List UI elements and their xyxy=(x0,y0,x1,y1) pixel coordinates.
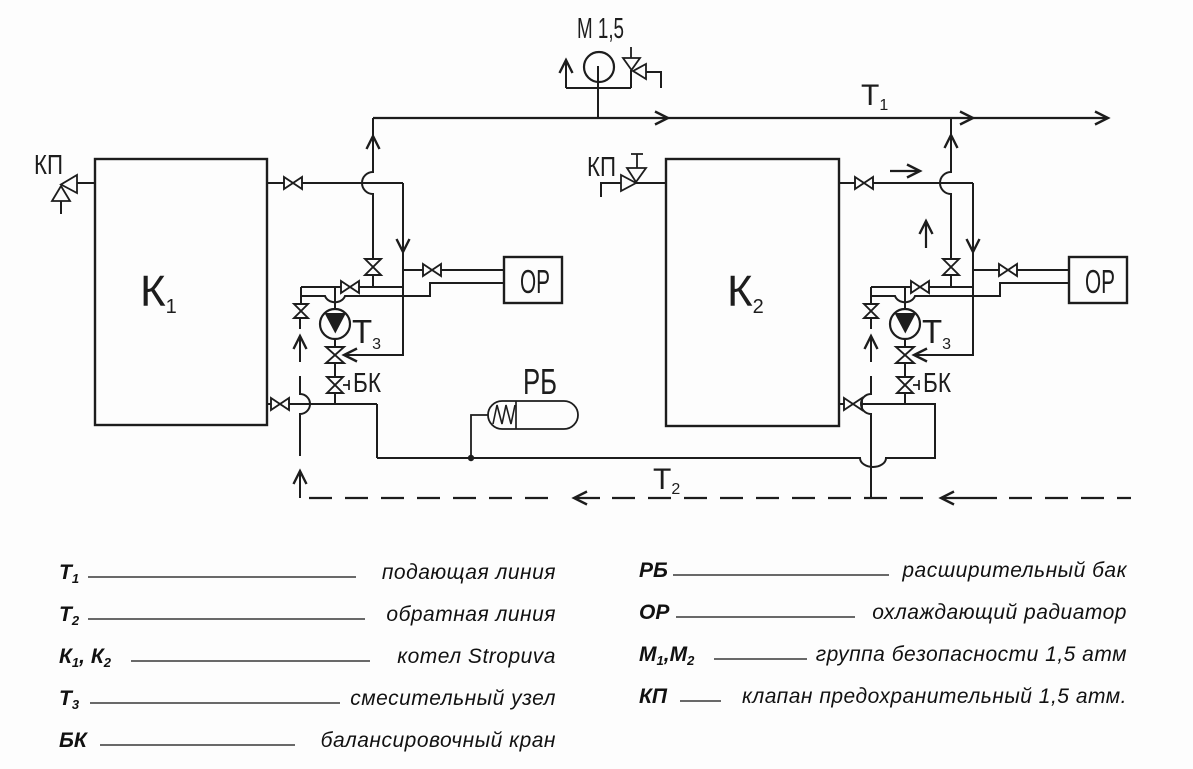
radiator OR right xyxy=(1069,257,1127,303)
safety valve KP right: pipe from K2 xyxy=(636,182,666,184)
svg-text:КП: КП xyxy=(34,149,63,180)
arrow at T1 end xyxy=(1095,112,1108,125)
riser pipe below valve xyxy=(372,275,374,287)
three-way mixing valve right xyxy=(896,347,914,363)
expansion tank RB body xyxy=(488,401,578,429)
down arrow on drop pipe xyxy=(397,239,410,252)
safety valve KP left drain stub xyxy=(60,201,62,214)
valve on K1 top output xyxy=(284,177,302,189)
svg-text:охлаждающий радиатор: охлаждающий радиатор xyxy=(872,601,1127,624)
valve on K1 riser xyxy=(365,259,381,275)
flow arrow right above K2 output xyxy=(890,170,919,172)
safety group manifold pipe xyxy=(566,87,631,89)
pipe to radiator OR right xyxy=(973,269,1069,271)
return line T2 dashes xyxy=(309,497,1131,499)
dashed return riser right: stub below drain valve xyxy=(870,318,872,329)
safety valve KP right triangles xyxy=(621,168,646,191)
riser pipe K2 to T1 with crossing hop xyxy=(940,118,951,260)
three-way mixing valve left xyxy=(326,347,344,363)
dashed return riser right: arrow dash xyxy=(870,337,872,362)
mixing valve inlet pipe with left arrow xyxy=(345,287,403,355)
supply line T1 xyxy=(373,117,1108,119)
drain valve on left leg xyxy=(294,304,308,318)
riser pipe below valve right xyxy=(950,275,952,287)
safety valve KP right outlet pipe xyxy=(601,183,621,197)
junction node at collector xyxy=(468,455,474,461)
dashed return riser left: dash with hop over return pipe xyxy=(300,376,310,456)
arrow on T1 after safety group xyxy=(655,112,668,125)
manometer M circle xyxy=(584,52,614,82)
pipe to radiator OR left xyxy=(403,269,504,271)
svg-text:ОР: ОР xyxy=(520,263,550,300)
valve on OR branch right xyxy=(999,264,1017,276)
dashed return riser left: stub below drain valve xyxy=(299,318,301,329)
safety valve KP right stem with bar xyxy=(631,154,643,168)
up arrow on K1 riser xyxy=(367,136,380,149)
svg-text:БК: БК xyxy=(353,367,382,398)
svg-text:М 1,5: М 1,5 xyxy=(577,13,624,45)
svg-text:РБ: РБ xyxy=(523,361,557,402)
safety valve outlet pipe xyxy=(646,72,661,88)
arrow on T1 after K2 riser xyxy=(960,112,973,125)
right leg pipe xyxy=(870,287,872,305)
up arrow on K2 riser xyxy=(945,135,958,148)
drain valve on right leg xyxy=(864,304,878,318)
safety valve top stub xyxy=(630,47,632,58)
pipe mixing valve to BK right xyxy=(904,363,906,378)
safety valve KP left: pipe from K1 xyxy=(77,182,95,184)
pump T3 left xyxy=(320,309,350,339)
svg-text:подающая линия: подающая линия xyxy=(382,561,556,584)
pipe K2 top output xyxy=(839,182,973,184)
svg-text:КП: КП xyxy=(587,151,616,182)
svg-text:котел Stropuva: котел Stropuva xyxy=(397,645,556,668)
balancing valve BK left xyxy=(327,377,343,393)
air vent arm with up arrow xyxy=(565,61,567,88)
corner pipe to collector xyxy=(376,404,378,458)
bypass pipe (pump suction) right xyxy=(871,286,973,288)
pipe BK left to boiler return xyxy=(334,393,336,404)
down arrow on right drop pipe xyxy=(967,239,980,252)
safety group riser pipe xyxy=(597,66,599,118)
pipe K1 top output xyxy=(267,182,403,184)
pipe pump to mixing valve left xyxy=(334,339,336,348)
pump T3 right xyxy=(890,309,920,339)
svg-text:М1,М2: М1,М2 xyxy=(639,643,695,668)
valve on bypass right xyxy=(911,281,929,293)
boiler K2 xyxy=(666,159,839,426)
expansion tank membrane zigzag xyxy=(493,405,515,424)
valve on bypass left xyxy=(341,281,359,293)
drop pipe from K2 output corner xyxy=(972,183,974,355)
return collector pipe xyxy=(377,404,935,467)
balancing valve BK right xyxy=(897,377,913,393)
safety valve KP left triangles xyxy=(52,175,77,201)
safety valve triangles xyxy=(623,58,646,79)
dashed return riser right: dash with hop over return pipe xyxy=(861,376,871,498)
svg-text:группа безопасности 1,5 атм: группа безопасности 1,5 атм xyxy=(816,643,1127,666)
svg-text:БК: БК xyxy=(923,367,952,398)
radiator OR left xyxy=(504,257,562,303)
pipe BK right to boiler return xyxy=(904,393,906,404)
valve on K2 riser xyxy=(943,259,959,275)
valve on K2 bottom return xyxy=(844,398,862,410)
pump feed pipe left xyxy=(334,287,336,310)
dashed return riser left: arrow dash xyxy=(299,337,301,362)
dashed return riser left: arrow dash at T2 xyxy=(299,472,301,498)
svg-text:смесительный узел: смесительный узел xyxy=(350,687,556,710)
riser pipe K1 to T1 with crossing hop xyxy=(362,118,373,260)
BK left tick xyxy=(343,380,349,390)
expansion tank connection pipe xyxy=(471,415,489,458)
svg-text:ОР: ОР xyxy=(639,601,670,624)
valve on K2 top output xyxy=(855,177,873,189)
BK right tick xyxy=(913,380,919,390)
valve on K1 bottom return xyxy=(271,398,289,410)
arrow on T2 right xyxy=(942,497,997,499)
left leg pipe xyxy=(300,287,302,305)
pipe mixing valve to BK left xyxy=(334,363,336,378)
OR left return pipe xyxy=(302,283,504,302)
OR right return pipe xyxy=(871,283,1069,302)
svg-text:ОР: ОР xyxy=(1085,263,1115,300)
boiler K1 xyxy=(95,159,267,425)
pipe K1 bottom return xyxy=(267,403,377,405)
svg-text:расширительный бак: расширительный бак xyxy=(901,559,1127,582)
pump feed pipe right xyxy=(904,287,906,310)
svg-text:КП: КП xyxy=(639,685,668,708)
mixing valve inlet pipe right with left arrow xyxy=(915,287,973,355)
arrow on T2 left xyxy=(575,497,600,499)
floating up flow arrow right group xyxy=(925,222,927,248)
valve on OR branch left xyxy=(423,264,441,276)
bypass pipe (pump suction) left xyxy=(301,286,403,288)
safety valve stem xyxy=(630,70,632,88)
pipe pump to mixing valve right xyxy=(904,339,906,348)
svg-text:клапан предохранительный 1,5 а: клапан предохранительный 1,5 атм. xyxy=(742,685,1127,708)
svg-text:обратная линия: обратная линия xyxy=(386,603,556,626)
expansion tank membrane divider xyxy=(515,401,517,429)
svg-text:БК: БК xyxy=(59,729,89,752)
svg-text:РБ: РБ xyxy=(639,559,668,582)
svg-text:балансировочный кран: балансировочный кран xyxy=(321,729,556,752)
drop pipe from K1 output corner xyxy=(402,183,404,355)
